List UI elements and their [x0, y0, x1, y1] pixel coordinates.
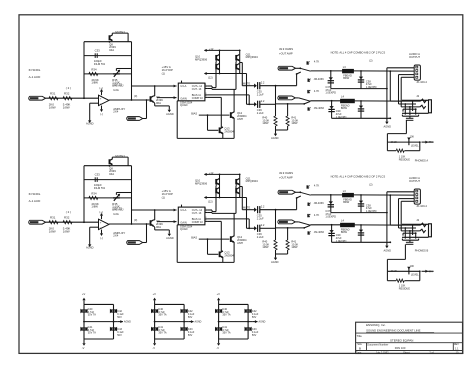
wire collector riser ch2: [154, 219, 155, 221]
capacitor C27 filter A post: [354, 194, 415, 196]
svg-text:LEVEL: LEVEL: [411, 145, 419, 148]
potentiometer network level: [408, 268, 410, 275]
svg-text:+V: +V: [153, 292, 157, 296]
wire IC out4 to Q24 collector: [207, 220, 221, 222]
wire IC out2 to pair B ch2: [207, 212, 212, 214]
switch S1B blade: [299, 98, 311, 101]
svg-text:AGND: AGND: [271, 260, 279, 264]
capacitor C1b bypass: [81, 327, 87, 329]
svg-text:TL0 72: TL0 72: [113, 206, 122, 210]
svg-text:Date:: Date:: [356, 351, 362, 354]
transistor pair Q1B: [239, 50, 241, 73]
ground emitter ch2: [168, 230, 170, 234]
wire tag to output ch2: [143, 242, 147, 244]
wire quad output B ch1: [246, 74, 248, 105]
wire pulldown bottoms ch2: [276, 253, 288, 255]
power -15 arrow group 3: [218, 339, 220, 343]
resistor network shunt: [396, 149, 404, 152]
capacitor C2f on mid rail: [94, 177, 96, 182]
ground shield ch2: [386, 241, 388, 245]
capacitor C2a bypass: [152, 309, 158, 311]
svg-text:2N3904: 2N3904: [224, 129, 234, 133]
svg-text:TL0 72: TL0 72: [113, 82, 122, 86]
wire connector pin3 ch2: [399, 198, 415, 200]
svg-text:Title: Title: [357, 334, 363, 338]
connector J12 4-pin: [414, 65, 420, 80]
transistor Q14: [219, 127, 221, 133]
svg-text:35V TA: 35V TA: [158, 332, 166, 335]
wire feedback to IC rail ch2: [132, 209, 177, 211]
svg-text:R32: R32: [64, 215, 70, 219]
capacitor C2b bypass: [152, 327, 158, 329]
svg-text:JM-4066: JM-4066: [314, 106, 325, 110]
wire group 2 left rail: [154, 304, 156, 339]
svg-text:06A: 06A: [156, 101, 161, 105]
svg-text:49.9 OHMS: 49.9 OHMS: [279, 47, 293, 51]
wire collector riser ch1: [154, 95, 155, 97]
wire feedback top rail ch1: [84, 41, 132, 43]
wire quad top rail ch1: [208, 49, 240, 51]
svg-text:(12): (12): [208, 75, 213, 79]
power +15 arrow group 2: [154, 300, 156, 304]
svg-text:AGND: AGND: [259, 321, 266, 324]
inductor L22 ferrite bead B: [341, 223, 355, 227]
wire group 2 top rail: [155, 303, 185, 305]
svg-text:ANTI: ANTI: [237, 241, 243, 245]
resistor R12: [63, 97, 72, 100]
power V+ arrow op-amp ch1: [101, 92, 103, 96]
svg-text:OUTPUT: OUTPUT: [409, 55, 420, 59]
ground emitter ch1: [168, 106, 170, 110]
switch S1A2 jfet: [307, 79, 309, 82]
capacitor C3c bypass: [245, 309, 251, 311]
svg-text:MPQ3904: MPQ3904: [246, 179, 259, 183]
svg-text:( 2 ): ( 2 ): [66, 210, 71, 214]
capacitor C15 coupling B: [257, 101, 259, 108]
wire IC out3 down ch2: [207, 218, 249, 220]
capacitor C18 filter B pre: [310, 100, 340, 102]
svg-text:NOTE: ALL 4 CAP COMBO A/B 2 OF: NOTE: ALL 4 CAP COMBO A/B 2 OF 2 PLCS: [331, 50, 386, 54]
op-amp U23 gain cell IC: [178, 207, 205, 225]
wire IC out4 to Q14 collector: [207, 96, 221, 98]
wire group 3 mid rail: [219, 321, 253, 323]
svg-text:4.7K: 4.7K: [314, 213, 320, 217]
capacitor C1a bypass: [81, 309, 87, 311]
wire network feed: [405, 120, 407, 133]
title block size dividers: [366, 343, 368, 351]
svg-text:PAN 100: PAN 100: [395, 346, 406, 350]
svg-text:GAIN: GAIN: [180, 97, 186, 101]
wire feedback mid rail ch2: [84, 179, 132, 181]
wire Q23 collector up: [233, 235, 235, 237]
svg-text:U3-A: U3-A: [180, 208, 186, 212]
transistor pair Q1A: [219, 50, 221, 73]
ground shield ch1: [386, 117, 388, 121]
wire Q14 emitter down: [222, 133, 224, 139]
capacitor C1f on mid rail: [94, 53, 96, 58]
svg-text:PHONES A: PHONES A: [415, 159, 429, 163]
connector input tag J2: [29, 220, 46, 224]
svg-text:A-1 AUD: A-1 AUD: [29, 199, 42, 203]
svg-text:+OUT AMP: +OUT AMP: [279, 51, 293, 55]
capacitor C16 filter A pre: [311, 70, 343, 72]
svg-text:AGND: AGND: [166, 236, 174, 240]
wire connector pin2 ch1: [389, 70, 391, 72]
wire Q13 emitter down: [233, 117, 235, 119]
power -12 arrow quad ch1: [205, 73, 209, 75]
svg-text:(12): (12): [208, 199, 213, 203]
svg-text:U2A: U2A: [113, 88, 119, 92]
wire input to op-amp ch2: [46, 221, 99, 223]
op-amp U13 gain cell IC: [178, 83, 205, 101]
svg-text:NOTE: ALL 4 CAP COMBO A/B 2 OF: NOTE: ALL 4 CAP COMBO A/B 2 OF 2 PLCS: [331, 174, 386, 178]
wire A lower contact ch2: [276, 209, 297, 211]
power +15 arrow group 3: [218, 300, 220, 304]
title block row lines: [356, 332, 463, 334]
switch S2A2 jfet: [307, 203, 309, 206]
switch S1A blade: [300, 68, 310, 71]
switch S1A jfet: [306, 61, 308, 64]
svg-text:AGND: AGND: [86, 246, 94, 250]
svg-text:1/8W: 1/8W: [63, 229, 70, 233]
svg-text:RESIDUE: RESIDUE: [399, 288, 410, 291]
transistor Q22 buffer: [150, 220, 152, 226]
svg-text:STEREO EQ/PAN: STEREO EQ/PAN: [390, 338, 413, 342]
ground group 3 arrow: [252, 321, 257, 323]
node junction B ch2: [287, 227, 289, 229]
wire B lower contact ch1: [276, 103, 305, 105]
wire feedback right vertical ch2: [131, 166, 133, 224]
resistor R23 feedback: [89, 196, 98, 199]
svg-text:BDW: BDW: [343, 200, 350, 204]
wire network left vertical lower: [386, 271, 388, 280]
connector net tag B ch2: [278, 220, 296, 224]
potentiometer VR21 trim: [113, 197, 120, 199]
wire group 3 top rail: [219, 303, 249, 305]
svg-text:+: +: [100, 96, 102, 100]
resistor R1b pulldown: [287, 104, 289, 116]
wire to Q24 base ch2: [207, 239, 209, 254]
svg-text:IN SNDL: IN SNDL: [29, 68, 41, 72]
svg-text:MUTE1: MUTE1: [115, 30, 125, 34]
svg-text:J2: J2: [416, 94, 419, 98]
svg-text:50V: 50V: [252, 334, 257, 337]
potentiometer network level: [408, 139, 410, 146]
wire quad bottom rail ch2: [208, 197, 247, 199]
switch S2B blade: [299, 222, 311, 225]
svg-text:( 2 ): ( 2 ): [66, 86, 71, 90]
wire feedback mid rail ch1: [84, 55, 132, 57]
transistor Q13: [230, 112, 232, 118]
resistor R2b pulldown: [287, 228, 289, 240]
wire Q24 emitter down: [222, 257, 224, 263]
capacitor C110 jack: [409, 116, 411, 118]
svg-text:+: +: [100, 220, 102, 224]
svg-text:1.0EXPD: 1.0EXPD: [325, 91, 336, 95]
svg-text:(-): (-): [100, 236, 103, 240]
wire pulldown bottoms ch1: [276, 129, 288, 131]
svg-text:2.2: 2.2: [261, 80, 265, 84]
svg-text:BIAS: BIAS: [191, 236, 197, 240]
node junction B ch1: [287, 103, 289, 105]
svg-text:Document Number: Document Number: [367, 343, 388, 346]
svg-text:49.9 OHMS: 49.9 OHMS: [279, 171, 293, 175]
title block frame: [356, 322, 463, 353]
svg-text:AGND: AGND: [271, 136, 279, 140]
transistor pair Q2B: [239, 174, 241, 197]
capacitor C28 filter B pre: [310, 224, 340, 226]
transistor pair Q2A: [219, 174, 221, 197]
wire emitter to ground ch1: [154, 101, 155, 104]
svg-text:U2A: U2A: [113, 212, 119, 216]
svg-text:39.2K: 39.2K: [391, 141, 398, 144]
svg-text:QUAD: QUAD: [180, 103, 188, 107]
wire base riser pair A ch1: [215, 60, 217, 62]
inductor L21 ferrite bead A: [343, 193, 354, 197]
power V+ arrow op-amp ch2: [101, 216, 103, 220]
svg-text:R34: R34: [91, 192, 97, 196]
wire op-amp output ch2: [109, 223, 149, 225]
svg-text:50V: 50V: [117, 334, 122, 337]
svg-text:PH: PH: [429, 141, 433, 144]
connector test tag ch1: [127, 117, 143, 121]
wire op-amp inverting input to ground ch1: [90, 102, 99, 104]
wire to Q14 base ch1: [207, 115, 209, 130]
wire connector pin3 ch1: [399, 74, 415, 76]
wire feedback lower rail ch1: [84, 73, 132, 75]
capacitor C17 filter A post: [354, 70, 415, 72]
svg-text:39.2K: 39.2K: [391, 270, 398, 273]
svg-text:35V TA: 35V TA: [88, 314, 96, 317]
wire connector pin1 ch1: [387, 67, 414, 69]
svg-text:1/8W: 1/8W: [262, 245, 269, 249]
resistor R21: [49, 221, 58, 224]
svg-text:2.2uF: 2.2uF: [257, 111, 264, 115]
svg-text:AGND: AGND: [384, 124, 392, 128]
wire quad output A ch2: [240, 186, 243, 188]
svg-text:4.7K: 4.7K: [314, 60, 320, 64]
wire connector pin4 ch2: [401, 200, 414, 202]
svg-text:10K: 10K: [410, 265, 415, 268]
capacitor C210 jack: [409, 240, 411, 242]
svg-text:QUAD: QUAD: [180, 227, 188, 231]
svg-text:BIAS: BIAS: [191, 112, 197, 116]
svg-text:(3): (3): [134, 94, 137, 98]
op-amp U11: [99, 95, 110, 105]
svg-text:04A: 04A: [109, 48, 114, 52]
svg-text:FILM 5%: FILM 5%: [94, 186, 106, 190]
wire network mid rail: [387, 270, 419, 272]
capacitor C3d bypass: [245, 327, 251, 329]
svg-text:JM-4066: JM-4066: [314, 230, 325, 234]
capacitor C19 filter B post: [354, 100, 402, 102]
connector net tag A ch1: [278, 66, 296, 70]
svg-text:SOUND ENGINEERING DOCUMENT LI: SOUND ENGINEERING DOCUMENT LINE: [366, 329, 420, 333]
svg-text:−: −: [100, 226, 102, 230]
wire sub-circuit bottom rail ch2: [177, 261, 234, 263]
wire quad output A ch1: [240, 62, 243, 64]
wire op-amp inverting input to ground ch2: [90, 226, 99, 228]
transistor Q21 feedback clamp: [109, 159, 111, 164]
capacitor C2d bypass: [181, 327, 187, 329]
svg-text:MUTE1: MUTE1: [115, 154, 125, 158]
wire tag to output ch1: [143, 118, 147, 120]
connector input tag J1: [29, 96, 46, 100]
capacitor C29 filter B post: [354, 224, 402, 226]
power +12 arrow quad ch2: [205, 173, 209, 175]
wire Q13 collector up: [233, 111, 235, 113]
inductor L11 ferrite bead A: [343, 69, 354, 73]
wire IC out1 to pair A ch2: [207, 209, 212, 211]
op-amp U21: [99, 219, 110, 229]
power -15 arrow group 2: [154, 339, 156, 343]
svg-text:AGND: AGND: [195, 321, 202, 324]
connector J22 4-pin: [414, 189, 420, 204]
capacitor C26 filter A pre: [311, 194, 343, 196]
wire tag A to switch ch2: [296, 191, 301, 193]
wire group 2 bottom rail: [155, 338, 185, 340]
svg-text:MPQ3904: MPQ3904: [246, 55, 259, 59]
wire group 1 top rail: [84, 303, 114, 305]
svg-text:OUT- 13: OUT- 13: [192, 212, 202, 215]
power V- arrow op-amp ch2: [101, 230, 103, 234]
wire tag B to switch ch1: [295, 97, 298, 99]
svg-text:2X4: 2X4: [113, 234, 118, 238]
power +15 arrow group 1: [83, 300, 85, 304]
wire feedback right vertical ch1: [131, 42, 133, 100]
wire base riser pair B ch1: [235, 60, 237, 62]
wire connector pin4 ch1: [401, 76, 414, 78]
wire riser shield ch2: [386, 192, 388, 242]
wire into IC lower input ch2: [157, 221, 177, 223]
wire feedback lower rail ch2: [84, 197, 132, 199]
power V- arrow op-amp ch1: [101, 106, 103, 110]
svg-text:(2): (2): [369, 183, 372, 187]
svg-text:ENSONIQ, Inc.: ENSONIQ, Inc.: [366, 323, 386, 327]
svg-text:R32: R32: [64, 91, 70, 95]
svg-text:1/8W: 1/8W: [91, 205, 98, 209]
wire group 1 left rail: [83, 304, 85, 339]
wire quad top rail ch2: [208, 173, 240, 175]
wire filter A ground rail ch2: [331, 212, 387, 214]
wire feedback left vertical ch1: [83, 97, 85, 99]
resistor R22: [63, 221, 72, 224]
svg-text:FILM 5%: FILM 5%: [94, 62, 106, 66]
connector net tag A ch2: [278, 190, 296, 194]
ground group 2 arrow: [188, 321, 193, 323]
wire network output arrow: [422, 270, 429, 272]
wire network bottom rail: [387, 280, 396, 282]
svg-text:R31: R31: [50, 91, 56, 95]
svg-text:−: −: [100, 102, 102, 106]
wire op-amp output ch1: [109, 99, 149, 101]
wire network mid rail: [387, 141, 419, 143]
wire group 2 mid rail: [155, 321, 189, 323]
wire quad output B ch2: [246, 198, 248, 229]
wire IC bottom left drop ch1: [176, 101, 178, 139]
svg-text:JK-100-4: JK-100-4: [416, 204, 427, 208]
wire tag B to switch ch2: [295, 221, 298, 223]
wire IC out1 to pair A ch1: [207, 85, 212, 87]
svg-text:PH: PH: [429, 270, 433, 273]
svg-text:R31: R31: [50, 215, 56, 219]
svg-text:4.7K: 4.7K: [314, 184, 320, 188]
svg-text:35V TA: 35V TA: [158, 314, 166, 317]
svg-text:50V: 50V: [252, 316, 257, 319]
svg-text:A-1 AUD: A-1 AUD: [29, 75, 42, 79]
svg-text:2N3904: 2N3904: [224, 253, 234, 257]
wire IC out3 down ch1: [207, 94, 249, 96]
switch S1B2 jfet: [307, 107, 309, 110]
svg-text:+V: +V: [217, 292, 221, 296]
capacitor C3b bypass: [216, 327, 222, 329]
svg-text:J2: J2: [416, 218, 419, 222]
power -15 arrow group 1: [83, 339, 85, 343]
svg-text:+OUT AMP: +OUT AMP: [279, 175, 293, 179]
wire quad bottom rail ch1: [208, 73, 247, 75]
svg-text:PHONES B: PHONES B: [415, 249, 429, 253]
svg-text:1/8W: 1/8W: [291, 245, 298, 249]
svg-text:JK-100-4: JK-100-4: [416, 80, 427, 84]
capacitor C25 coupling B: [257, 225, 259, 232]
wire Q23 emitter down: [233, 241, 235, 243]
svg-text:2.2: 2.2: [261, 204, 265, 208]
svg-text:35V TA: 35V TA: [88, 332, 96, 335]
wire connector pin2 ch2: [389, 194, 391, 196]
svg-text:50V: 50V: [188, 316, 193, 319]
svg-text:-V: -V: [82, 346, 85, 350]
svg-text:50V: 50V: [117, 316, 122, 319]
power -12 arrow quad ch2: [205, 197, 209, 199]
svg-text:R34: R34: [91, 68, 97, 72]
wire connector pin1 ch2: [387, 191, 414, 193]
wire tag A to switch ch1: [296, 67, 301, 69]
inductor L12 ferrite bead B: [341, 99, 355, 103]
wire network right vertical: [419, 270, 421, 272]
svg-text:1/8W: 1/8W: [63, 105, 70, 109]
svg-text:1/8W: 1/8W: [49, 229, 56, 233]
capacitor C14 coupling A: [257, 82, 259, 89]
wire riser pin2 to jack ch1: [389, 71, 391, 101]
wire network feed: [404, 244, 406, 259]
wire B lower contact ch2: [276, 227, 305, 229]
wire sub-circuit bottom rail ch1: [177, 137, 234, 139]
svg-text:U3-A: U3-A: [180, 84, 186, 88]
svg-text:(1): (1): [162, 71, 165, 75]
svg-text:2.2uF: 2.2uF: [257, 216, 264, 220]
svg-text:AGND: AGND: [124, 321, 131, 324]
svg-text:-V: -V: [216, 346, 219, 350]
svg-text:2.2uF: 2.2uF: [257, 235, 264, 239]
svg-text:AGND: AGND: [166, 112, 174, 116]
switch S1B jfet: [307, 90, 309, 93]
svg-text:OUTPUT: OUTPUT: [409, 179, 420, 183]
svg-text:4.7K: 4.7K: [314, 89, 320, 93]
wire network left vertical lower: [386, 142, 388, 151]
svg-text:35V TA: 35V TA: [222, 332, 230, 335]
svg-text:04A: 04A: [109, 172, 114, 176]
capacitor C1c bypass: [111, 309, 117, 311]
svg-text:BDW: BDW: [341, 230, 348, 234]
wire group 3 left rail: [218, 304, 220, 339]
svg-text:OUT- 13: OUT- 13: [192, 88, 202, 91]
svg-text:2.2: 2.2: [261, 99, 265, 103]
switch S2A blade: [300, 192, 310, 195]
ground below op-amp ch2: [89, 241, 91, 244]
power +12 arrow quad ch1: [205, 49, 209, 51]
capacitor C2c bypass: [181, 309, 187, 311]
svg-text:(2): (2): [369, 59, 372, 63]
